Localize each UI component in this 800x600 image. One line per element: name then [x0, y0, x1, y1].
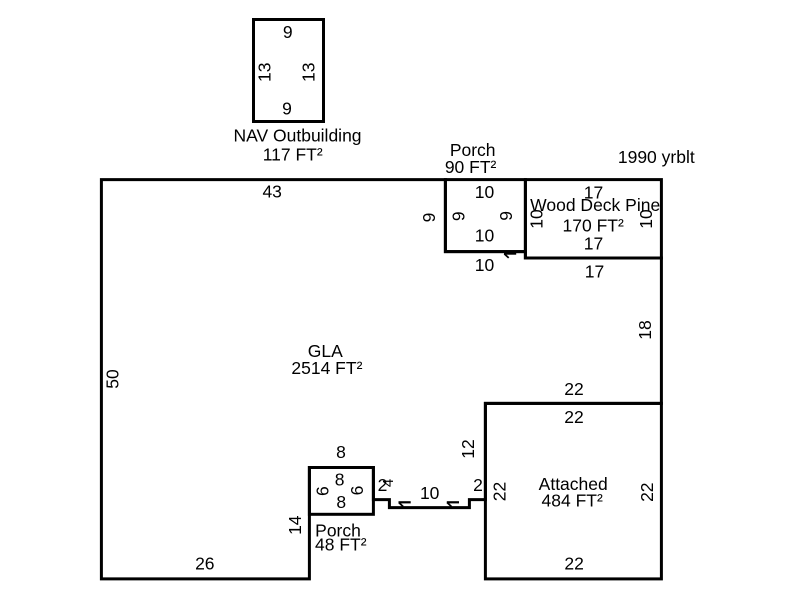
- svg-text:NAV Outbuilding: NAV Outbuilding: [233, 126, 361, 146]
- bottom porch outline (48 FT2): [309, 468, 373, 515]
- svg-text:8: 8: [335, 470, 345, 490]
- svg-text:9: 9: [282, 98, 292, 118]
- svg-text:8: 8: [336, 442, 346, 462]
- svg-text:2: 2: [473, 475, 483, 495]
- svg-text:22: 22: [490, 482, 510, 501]
- svg-text:9: 9: [283, 22, 293, 42]
- svg-text:18: 18: [635, 320, 655, 339]
- svg-text:2514 FT²: 2514 FT²: [291, 358, 362, 378]
- svg-text:10: 10: [420, 483, 440, 503]
- svg-text:26: 26: [195, 554, 214, 574]
- svg-text:13: 13: [298, 63, 318, 82]
- svg-text:22: 22: [564, 379, 583, 399]
- svg-text:1990 yrblt: 1990 yrblt: [618, 147, 695, 167]
- dim 1 deck junction step wall: [504, 254, 516, 258]
- svg-text:9: 9: [448, 211, 468, 221]
- svg-text:90 FT²: 90 FT²: [445, 157, 497, 177]
- svg-text:6: 6: [313, 486, 333, 496]
- svg-text:22: 22: [637, 482, 657, 501]
- svg-text:6: 6: [347, 486, 367, 496]
- svg-text:17: 17: [585, 261, 604, 281]
- svg-text:10: 10: [475, 182, 495, 202]
- svg-text:10: 10: [527, 209, 547, 229]
- svg-text:12: 12: [458, 439, 478, 458]
- dim 1 left step wall: [399, 502, 411, 506]
- svg-text:117 FT²: 117 FT²: [263, 144, 323, 164]
- svg-text:10: 10: [475, 226, 495, 246]
- attached garage outline (484 FT2): [485, 403, 661, 579]
- svg-text:9: 9: [496, 211, 516, 221]
- svg-text:10: 10: [636, 209, 656, 229]
- svg-text:10: 10: [475, 255, 495, 275]
- svg-text:14: 14: [285, 515, 305, 535]
- svg-text:8: 8: [336, 492, 346, 512]
- svg-text:17: 17: [584, 233, 603, 253]
- NAV outbuilding outline (117 FT2): [254, 20, 324, 122]
- svg-text:43: 43: [262, 182, 281, 202]
- svg-text:13: 13: [254, 63, 274, 82]
- svg-text:2: 2: [378, 475, 388, 495]
- svg-text:9: 9: [419, 213, 439, 223]
- wood deck outline (170 FT2): [525, 180, 661, 258]
- svg-text:22: 22: [564, 407, 583, 427]
- svg-text:50: 50: [103, 369, 123, 389]
- dim 1 right step wall: [447, 502, 459, 506]
- svg-text:22: 22: [564, 553, 583, 573]
- svg-text:484 FT²: 484 FT²: [542, 491, 603, 511]
- GLA main house outline: [101, 180, 661, 579]
- top porch outline (90 FT2): [445, 180, 525, 252]
- svg-text:48 FT²: 48 FT²: [315, 534, 367, 554]
